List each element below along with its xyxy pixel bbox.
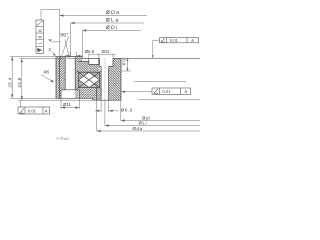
svg-text:Ø6.8: Ø6.8: [85, 49, 95, 54]
leader from surface box: [41, 10, 60, 21]
small width dim at outer ring top: [65, 52, 83, 58]
surface finish box: [36, 20, 44, 53]
dim 25.4 left: [10, 57, 93, 101]
svg-text:ØLi: ØLi: [139, 121, 148, 126]
inner ring outline: [82, 58, 121, 100]
svg-text:A: A: [191, 38, 194, 43]
outer ring outline: [56, 57, 93, 99]
leader frame2: [121, 91, 152, 93]
frame top right angularity: [160, 38, 199, 43]
svg-text:25.4: 25.4: [7, 77, 12, 87]
90 deg angle lines: [48, 36, 69, 60]
roller cavity square: [78, 72, 99, 87]
bottom surface extension line right: [138, 99, 200, 101]
dim ØLa line: [71, 22, 145, 24]
svg-text:24.8: 24.8: [17, 77, 22, 87]
svg-text:ØDa: ØDa: [106, 10, 121, 16]
svg-text:R6: R6: [44, 70, 50, 75]
extension line ØLa hole axis: [70, 23, 72, 57]
svg-text:Øda: Øda: [133, 126, 143, 131]
svg-text:Ø11: Ø11: [102, 49, 110, 54]
inner ring lower left edge: [93, 88, 97, 101]
dim lines for Ø6.8 and Ø11 top: [89, 54, 116, 59]
outer ring hatched body: [56, 57, 93, 99]
svg-text:A: A: [185, 89, 188, 94]
dim ØDi line: [82, 30, 141, 32]
svg-text:A: A: [45, 109, 48, 114]
outer ring bolt hole Ø6.6: [65, 57, 75, 90]
dim 6.8 right vertical: [121, 58, 131, 71]
frame mid right angularity: [152, 88, 191, 94]
extension line ØDa: [59, 10, 61, 57]
inner ring bolt hole Ø6.6: [101, 67, 113, 101]
svg-text:ØDi: ØDi: [106, 25, 119, 31]
roller insertion plug: [78, 58, 98, 64]
inner ring hatched body: [78, 58, 121, 100]
hole centerline right: [104, 58, 106, 100]
svg-text:90°: 90°: [60, 33, 69, 39]
dim Ødi line: [121, 100, 200, 121]
dim ØLi line: [105, 100, 200, 126]
inner ring counterbore Ø11 top: [100, 58, 114, 66]
roller cross X: [77, 71, 102, 89]
svg-text:Ø6.6: Ø6.6: [121, 107, 133, 112]
svg-text:ØLa: ØLa: [106, 17, 120, 23]
leader frame1: [153, 40, 160, 58]
dim ØDa line: [60, 15, 148, 17]
top surface extension line right: [121, 57, 200, 59]
outer ring counterbore Ø11: [61, 90, 79, 99]
dim Øda line: [97, 100, 200, 131]
svg-text:X-Rad: X-Rad: [56, 136, 69, 141]
svg-text:6.8: 6.8: [122, 59, 127, 66]
svg-text:0.01: 0.01: [170, 38, 179, 43]
svg-text:0.01: 0.01: [163, 89, 172, 94]
frame bottom left angularity: [18, 107, 50, 114]
svg-text:Ø11: Ø11: [63, 102, 71, 107]
extension line ØDi joint: [81, 31, 83, 57]
floating reference line right: [134, 81, 186, 83]
roller diamond: [78, 72, 99, 87]
svg-text:0.01: 0.01: [28, 109, 37, 114]
leader frame3: [20, 100, 22, 107]
dim Ø6.6 bottom: [95, 100, 119, 113]
dim Ø11 bottom: [61, 98, 79, 109]
